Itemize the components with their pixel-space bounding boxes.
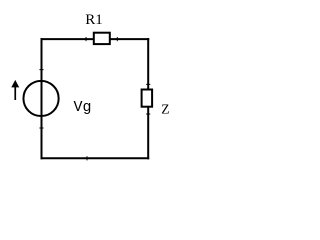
svg-text:R1: R1: [85, 12, 103, 28]
wire right lower: [147, 108, 149, 159]
wire left: [41, 39, 43, 158]
pin tick Vg bottom: [39, 127, 43, 129]
pin tick R1 right: [116, 37, 118, 41]
wire right upper: [147, 39, 149, 88]
pin tick R1 left: [85, 37, 87, 41]
svg-text:Z: Z: [161, 101, 169, 116]
pin tick Z top: [146, 83, 150, 85]
pin tick Vg top: [39, 69, 43, 71]
current arrow: [11, 80, 19, 100]
resistor R1: [94, 33, 110, 44]
wire bottom: [42, 157, 149, 159]
pin tick Z bottom: [146, 113, 150, 115]
wire junction tick bottom: [86, 156, 88, 160]
impedance Z: [142, 90, 153, 107]
wire top-right segment: [111, 38, 148, 40]
wire top-left segment: [42, 38, 93, 40]
voltage source Vg: [23, 81, 58, 116]
svg-text:Vg: Vg: [74, 99, 92, 116]
